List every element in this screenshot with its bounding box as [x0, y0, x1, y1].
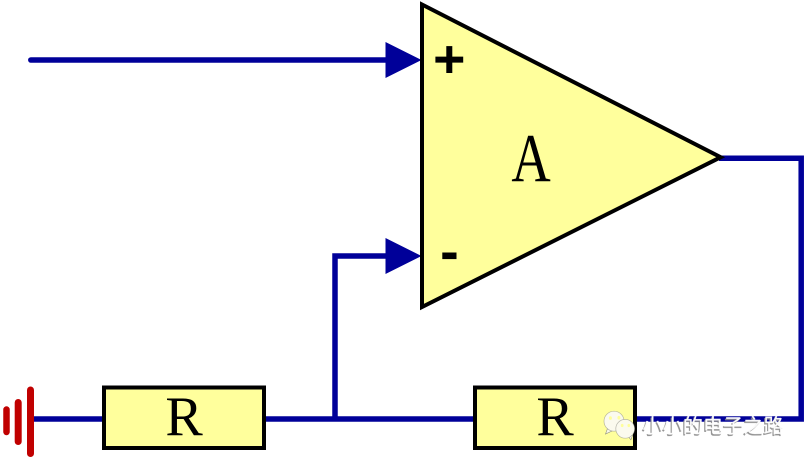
resistor R1	[104, 386, 264, 448]
svg-text:R: R	[536, 386, 574, 448]
arrowhead into - input	[386, 238, 422, 274]
svg-text:A: A	[511, 121, 550, 196]
wire: feedback from op-amp output down to resistor R2	[637, 158, 801, 419]
op-amp A	[422, 5, 721, 308]
watermark text xiaoxiao de dianzi zhi lu	[642, 416, 783, 436]
wire: vertical from R1/R2 node up to inverting input	[335, 256, 388, 419]
watermark wechat logo	[604, 411, 635, 440]
wire: non-inverting input signal line	[31, 57, 388, 63]
- input marker	[442, 253, 456, 260]
+ input marker	[435, 46, 463, 73]
wire: ground through resistor R1 to inverting node	[33, 416, 475, 422]
svg-text:R: R	[165, 386, 203, 448]
resistor R2	[475, 386, 635, 448]
ground symbol (red)	[7, 390, 31, 454]
arrowhead into + input	[386, 42, 422, 78]
